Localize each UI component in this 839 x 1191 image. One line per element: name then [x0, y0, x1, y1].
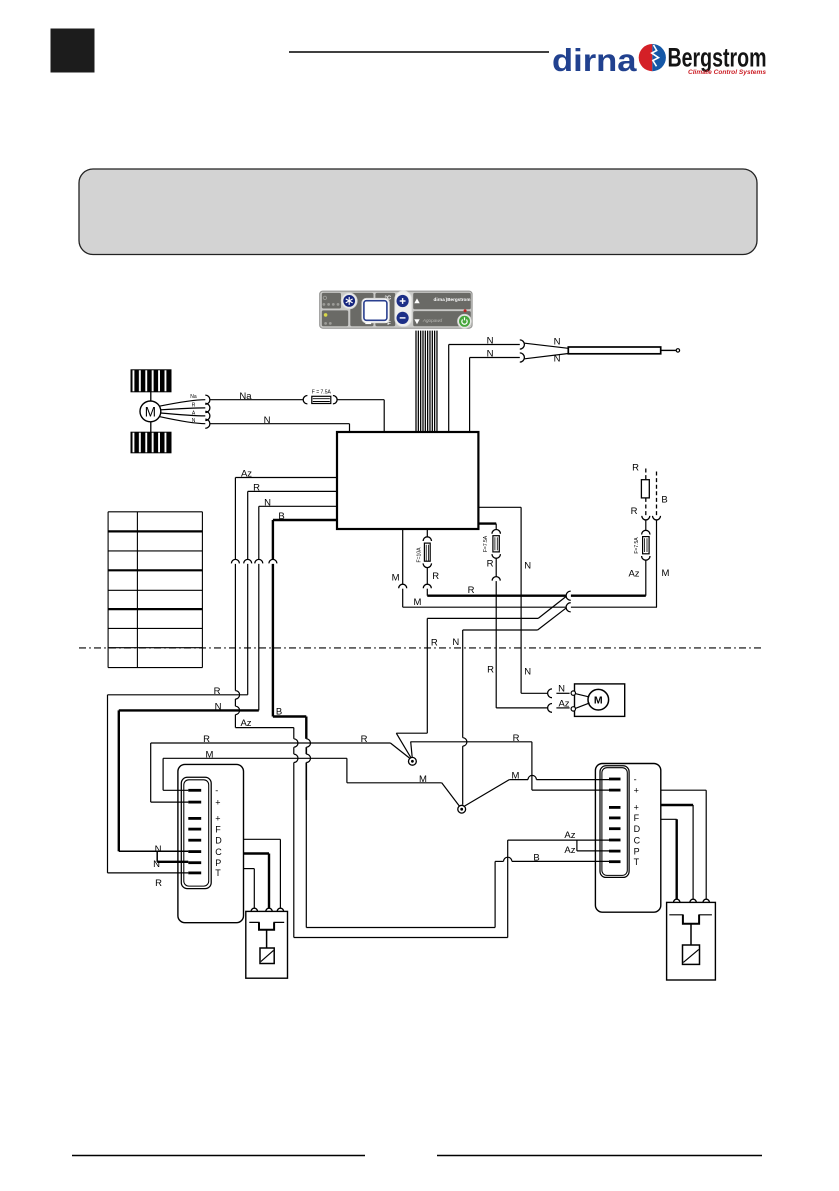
- svg-text:F: F: [634, 813, 640, 823]
- svg-text:M: M: [594, 695, 603, 707]
- svg-text:M: M: [392, 573, 400, 584]
- svg-text:N: N: [524, 560, 531, 571]
- svg-text:N: N: [554, 354, 561, 365]
- svg-text:+: +: [634, 785, 639, 795]
- svg-text:R: R: [631, 506, 638, 517]
- svg-text:T: T: [215, 868, 221, 878]
- svg-text:N: N: [264, 497, 271, 508]
- svg-text:C: C: [215, 847, 222, 857]
- svg-text:T: T: [634, 857, 640, 867]
- svg-text:R: R: [468, 585, 475, 596]
- svg-text:D: D: [634, 824, 641, 834]
- svg-text:D: D: [215, 836, 222, 846]
- svg-text:N: N: [153, 859, 160, 870]
- svg-text:M: M: [414, 597, 422, 608]
- svg-text:-: -: [634, 774, 637, 784]
- svg-text:R: R: [632, 462, 639, 473]
- svg-text:dirna: dirna: [552, 42, 637, 78]
- svg-text:B: B: [278, 511, 284, 522]
- svg-text:R: R: [487, 664, 494, 675]
- svg-text:M: M: [662, 568, 670, 579]
- svg-text:Az: Az: [241, 469, 252, 480]
- svg-text:F = 7.5A: F = 7.5A: [312, 389, 332, 395]
- svg-text:°F: °F: [385, 321, 391, 327]
- svg-text:B: B: [276, 706, 282, 717]
- svg-text:R: R: [192, 402, 196, 408]
- svg-text:P: P: [215, 858, 221, 868]
- svg-text:Na: Na: [190, 394, 197, 400]
- svg-text:+: +: [215, 797, 220, 807]
- svg-text:N: N: [264, 415, 271, 426]
- svg-text:R: R: [487, 558, 494, 569]
- svg-text:R: R: [361, 734, 368, 745]
- svg-text:B: B: [661, 495, 667, 506]
- svg-text:°C: °C: [385, 296, 392, 302]
- svg-text:R: R: [203, 734, 210, 745]
- svg-text:N: N: [155, 844, 162, 855]
- svg-text:Az: Az: [628, 568, 639, 579]
- svg-text:N: N: [192, 418, 196, 424]
- svg-text:P: P: [634, 846, 640, 856]
- svg-text:R: R: [155, 878, 162, 889]
- svg-text:N: N: [215, 702, 222, 713]
- svg-text:Climate Control Systems: Climate Control Systems: [688, 69, 766, 76]
- svg-text:R: R: [431, 637, 438, 648]
- svg-text:+: +: [634, 803, 639, 813]
- svg-text:F=10A: F=10A: [416, 547, 422, 563]
- svg-text:N: N: [554, 336, 561, 347]
- svg-text:R: R: [214, 686, 221, 697]
- svg-text:-: -: [215, 786, 218, 796]
- svg-text:R: R: [432, 571, 439, 582]
- svg-text:M: M: [419, 774, 427, 785]
- svg-text:N: N: [487, 349, 494, 360]
- svg-text:Agopawd: Agopawd: [422, 318, 443, 323]
- svg-text:Az: Az: [564, 830, 575, 841]
- svg-text:F=7.5A: F=7.5A: [634, 537, 640, 554]
- svg-text:+: +: [215, 814, 220, 824]
- svg-text:Az: Az: [564, 845, 575, 856]
- svg-text:M: M: [206, 749, 214, 760]
- svg-text:Na: Na: [239, 391, 252, 402]
- svg-text:N: N: [524, 666, 531, 677]
- svg-text:F: F: [215, 824, 221, 834]
- svg-text:B: B: [533, 853, 539, 864]
- svg-text:Az: Az: [240, 718, 251, 729]
- svg-text:R: R: [513, 733, 520, 744]
- svg-text:N: N: [452, 637, 459, 648]
- svg-text:N: N: [558, 683, 565, 694]
- svg-text:C: C: [634, 835, 641, 845]
- svg-text:dirna )Bergstrom: dirna )Bergstrom: [434, 297, 471, 302]
- svg-text:N: N: [487, 336, 494, 347]
- svg-text:M: M: [145, 404, 156, 419]
- svg-text:R: R: [253, 483, 260, 494]
- svg-text:F=7.5A: F=7.5A: [483, 535, 489, 552]
